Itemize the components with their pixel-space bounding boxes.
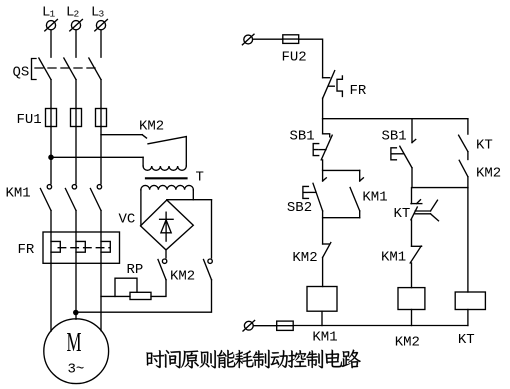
svg-text:VC: VC bbox=[119, 212, 136, 228]
wire to transformer primary left bbox=[142, 157, 144, 166]
switch QS pole 2 blade bbox=[64, 58, 76, 80]
svg-text:SB1: SB1 bbox=[382, 129, 407, 145]
transformer T core bbox=[146, 177, 187, 179]
KM2 NC interlock contact bbox=[323, 243, 331, 258]
wire SB1 to node1 bbox=[322, 160, 324, 171]
thermal relay FR box bbox=[43, 232, 120, 263]
wire branch L1 to transformer primary bbox=[51, 156, 143, 158]
KM1 self-hold contact bbox=[350, 170, 363, 211]
svg-text:KT: KT bbox=[476, 138, 493, 154]
svg-text:KM2: KM2 bbox=[395, 335, 420, 351]
switch QS linkage dashed bar bbox=[35, 67, 97, 69]
wire KT to KM1 contact bbox=[411, 220, 413, 247]
svg-text:FR: FR bbox=[18, 242, 35, 258]
svg-text:KM2: KM2 bbox=[170, 269, 195, 285]
FR heater pole3 bbox=[101, 232, 110, 263]
contactor KM2 brake contact left bbox=[158, 250, 167, 280]
wire to KM1 coil bbox=[322, 258, 324, 287]
wire branch L3 to KM2 top contact bbox=[101, 134, 142, 136]
KT delayed contact bbox=[411, 188, 439, 221]
wire FR to motor pole3 bbox=[100, 263, 102, 330]
FR linkage dashes bbox=[58, 247, 110, 249]
fuse FU2 bbox=[283, 35, 299, 44]
fuse bottom bbox=[277, 321, 294, 330]
wire L3 to QS bbox=[100, 30, 102, 57]
wire terminal to fuse bottom bbox=[253, 325, 277, 327]
FR heater pole1 bbox=[51, 232, 60, 263]
svg-text:QS: QS bbox=[13, 65, 30, 81]
svg-text:M: M bbox=[67, 327, 82, 357]
svg-text:2: 2 bbox=[74, 9, 80, 20]
svg-text:3~: 3~ bbox=[68, 362, 85, 378]
wire FU1 to KM1 pole1 bbox=[50, 127, 52, 184]
wire KM1 to FR pole2 bbox=[75, 211, 77, 233]
contactor KM1 pole3 contact bbox=[90, 185, 101, 211]
node1 horizontal bbox=[323, 169, 360, 171]
transformer T primary winding bbox=[143, 166, 186, 170]
FR NC contact bbox=[323, 71, 343, 99]
wire SB2/KM1 join down bbox=[322, 211, 324, 244]
svg-text:KM1: KM1 bbox=[362, 190, 387, 206]
caption 时间原则能耗制动控制电路 bbox=[147, 350, 361, 369]
contactor KM2 top contact bbox=[142, 135, 186, 166]
SB1 right NO button bbox=[391, 119, 416, 168]
svg-text:1: 1 bbox=[50, 9, 56, 20]
bus line bbox=[323, 118, 468, 120]
node junction dot on L1 bbox=[49, 155, 53, 159]
wire FR to bus bbox=[322, 98, 324, 119]
wire KM1 to FR pole1 bbox=[50, 211, 52, 233]
wire secondary left to bridge bbox=[140, 190, 142, 226]
wire FU1 to KM1 pole3 bbox=[100, 127, 102, 184]
transformer T secondary winding bbox=[141, 185, 193, 189]
fuse FU1 pole2 bbox=[71, 109, 82, 127]
contactor KM2 brake contact right bbox=[204, 200, 213, 280]
node3 horizontal bbox=[412, 187, 468, 189]
RP rheostat bump bbox=[115, 278, 137, 296]
SB1 left NC button bbox=[313, 119, 332, 160]
svg-text:KM2: KM2 bbox=[139, 119, 164, 135]
wire to KM2 coil bbox=[411, 263, 413, 288]
wire RP to KM2 contact bbox=[151, 280, 166, 297]
contactor KM1 pole2 contact bbox=[65, 185, 76, 211]
switch QS bracket bbox=[32, 59, 37, 80]
contactor KM1 pole1 contact bbox=[40, 185, 51, 211]
svg-text:RP: RP bbox=[127, 262, 144, 278]
node L3 terminal bbox=[95, 19, 108, 31]
wire FR to motor pole1 bbox=[50, 263, 52, 331]
svg-text:3: 3 bbox=[99, 9, 105, 20]
FR heater pole2 bbox=[76, 232, 85, 263]
wire FU2 to FR contact bbox=[299, 39, 323, 77]
bottom rail bbox=[293, 325, 468, 327]
motor M circle bbox=[44, 319, 109, 384]
wire QS to FU1 pole3 bbox=[100, 80, 102, 109]
svg-text:KM1: KM1 bbox=[6, 186, 31, 202]
node2 horizontal bbox=[323, 217, 360, 219]
node junction dot motor line2 bbox=[74, 310, 78, 314]
switch QS pole 1 blade bbox=[39, 58, 51, 80]
fuse FU1 pole1 bbox=[46, 109, 57, 127]
wire SB1r to node3 bbox=[411, 168, 413, 188]
svg-text:KT: KT bbox=[394, 206, 411, 222]
switch QS pole 3 blade bbox=[89, 58, 101, 80]
coil KM2 bbox=[398, 288, 425, 310]
wire FU1 to KM1 pole2 bbox=[75, 127, 77, 184]
wire KT coil to rail bbox=[467, 310, 469, 326]
svg-text:T: T bbox=[196, 170, 204, 186]
svg-text:KM2: KM2 bbox=[292, 250, 317, 266]
wire QS to FU1 pole2 bbox=[75, 80, 77, 109]
coil KM1 bbox=[307, 287, 337, 312]
svg-text:KM2: KM2 bbox=[476, 166, 501, 182]
KM1 NO contact colB bbox=[410, 246, 421, 263]
diode inside VC bbox=[160, 212, 174, 241]
svg-text:SB2: SB2 bbox=[287, 200, 312, 216]
wire secondary right down bbox=[192, 190, 194, 200]
svg-text:FU2: FU2 bbox=[282, 50, 307, 66]
SB2 NO button bbox=[303, 170, 326, 211]
wire KM2 coil to rail bbox=[411, 310, 413, 326]
wire KM2 right to motor junction bbox=[76, 280, 212, 313]
wire bridge top to KM2 right bbox=[167, 199, 212, 201]
wire L2 to QS bbox=[75, 30, 77, 57]
svg-text:KM1: KM1 bbox=[312, 330, 337, 346]
wire FR to motor pole2 bbox=[75, 263, 77, 319]
wire KM1 to FR pole3 bbox=[100, 211, 102, 233]
svg-text:FU1: FU1 bbox=[17, 112, 42, 128]
wire colC to KT coil bbox=[467, 188, 469, 292]
wire QS to FU1 pole1 bbox=[50, 80, 52, 109]
resistor RP bbox=[130, 292, 151, 299]
svg-text:SB1: SB1 bbox=[290, 129, 315, 145]
rectifier VC bridge diamond bbox=[141, 200, 194, 250]
node L2 terminal bbox=[70, 19, 83, 31]
svg-text:KT: KT bbox=[458, 332, 475, 348]
KM2 NO contact colC bbox=[459, 152, 468, 188]
wire KM1 coil to rail bbox=[321, 311, 323, 325]
KT NO contact colC bbox=[459, 119, 468, 152]
wire L1 to QS bbox=[50, 30, 52, 57]
wire RP tap from pole3 bbox=[101, 295, 130, 297]
terminal bottom bbox=[243, 320, 255, 331]
control: terminal top bbox=[242, 34, 254, 45]
coil KT bbox=[455, 292, 485, 310]
wire terminal to FU2 bbox=[253, 38, 283, 40]
fuse FU1 pole3 bbox=[96, 109, 107, 127]
svg-text:KM1: KM1 bbox=[381, 250, 406, 266]
svg-text:FR: FR bbox=[350, 83, 367, 99]
node L1 terminal bbox=[45, 19, 58, 31]
